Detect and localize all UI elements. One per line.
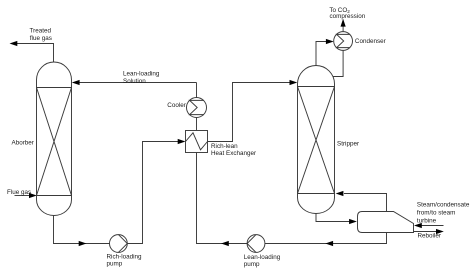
wire: rich pump discharge to heat exchanger: [127, 142, 180, 244]
svg-text:Stripper: Stripper: [337, 140, 359, 147]
arrowhead lean return left of pump (left): [221, 241, 229, 246]
svg-text:flue gas: flue gas: [30, 35, 52, 42]
wire: cooler to heat exchanger: [196, 118, 198, 131]
wire: absorber bottoms to rich pump: [54, 215, 110, 243]
label Treated flue gas: [30, 27, 52, 42]
wire: heat exchanger to stripper: [208, 83, 292, 142]
label Lean-loading Solution: [123, 71, 160, 85]
svg-text:Steam/condensate: Steam/condensate: [417, 202, 470, 209]
arrowhead lean return right of pump (left): [325, 241, 333, 246]
arrowhead lean solution into absorber (left): [72, 80, 80, 85]
arrowhead into heat exchanger (right): [178, 139, 186, 144]
absorber column C1: [37, 62, 72, 216]
label Lean-loading pump: [244, 254, 281, 268]
arrowhead vapor return into stripper (left): [336, 191, 344, 196]
svg-text:compression: compression: [330, 13, 366, 20]
svg-text:Reboiler: Reboiler: [418, 233, 441, 240]
wire: stripper overhead to condenser: [316, 42, 327, 66]
wire: lean line cooler stub above: [196, 83, 198, 98]
wire: steam into reboiler: [421, 225, 444, 227]
arrowhead flue gas (right): [29, 193, 37, 198]
arrowhead into stripper (right): [290, 80, 298, 85]
svg-text:Aborber: Aborber: [12, 140, 34, 147]
label Rich-lean Heat Exchanger: [211, 143, 256, 157]
pump P1 rich-loading pump: [110, 235, 128, 253]
arrowhead to CO2 compression (up): [341, 19, 346, 27]
svg-text:Lean-loading: Lean-loading: [244, 254, 281, 261]
heat exchanger E1 rich-lean: [186, 131, 208, 153]
svg-text:from/to steam: from/to steam: [417, 210, 456, 217]
svg-text:Rich-lean: Rich-lean: [211, 143, 238, 150]
arrowhead treated flue gas (left): [10, 41, 18, 46]
arrowhead condensate out (right): [436, 229, 444, 234]
svg-text:pump: pump: [107, 260, 123, 267]
wire: stripper bottoms to reboiler: [316, 213, 350, 221]
wire: reboiler vapor return to stripper: [344, 194, 387, 212]
svg-text:Lean-loading: Lean-loading: [123, 71, 160, 78]
svg-text:turbine: turbine: [417, 218, 437, 225]
arrowhead into condenser (right): [326, 39, 334, 44]
wire: flue gas into absorber bottom: [15, 195, 31, 197]
wire: condenser to CO2 compression: [342, 26, 344, 32]
label Steam/condensate from/to steam turbine: [417, 202, 470, 225]
arrowhead rich stream (right): [79, 241, 87, 246]
svg-text:Flue gas: Flue gas: [7, 189, 31, 196]
condenser E3: [334, 32, 353, 51]
svg-text:Condenser: Condenser: [355, 38, 386, 45]
svg-text:Heat Exchanger: Heat Exchanger: [211, 150, 256, 157]
reboiler E4: [358, 212, 414, 233]
label Rich-loading pump: [107, 253, 142, 267]
pump P2 lean-loading pump: [247, 235, 265, 253]
wire: lean return from reboiler through lean pump to heat exchanger: [197, 153, 387, 244]
label To CO2 compression: [329, 7, 365, 20]
arrowhead steam into reboiler (left): [414, 223, 422, 228]
wire: lean-loading solution into absorber: [76, 82, 197, 84]
wire: treated flue gas out of absorber top: [12, 44, 54, 63]
wire: condensate out of reboiler: [414, 231, 438, 233]
wire: condenser return to stripper: [333, 50, 343, 76]
svg-text:Rich-loading: Rich-loading: [107, 253, 142, 260]
svg-text:Treated: Treated: [30, 27, 52, 34]
svg-text:Cooler: Cooler: [167, 102, 186, 109]
svg-text:pump: pump: [244, 261, 260, 268]
svg-text:Solution: Solution: [123, 78, 146, 85]
arrowhead into reboiler (right): [349, 219, 357, 224]
cooler E2: [187, 98, 207, 118]
stripper column C2: [298, 66, 335, 214]
